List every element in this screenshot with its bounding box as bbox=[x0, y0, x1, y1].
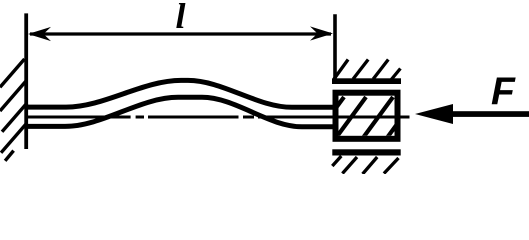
bottom wall hatching bbox=[332, 156, 398, 174]
svg-text:F: F bbox=[491, 71, 516, 114]
top wall hatching bbox=[334, 60, 400, 80]
right dimension arrowhead bbox=[310, 26, 333, 40]
beam bottom edge (buckled) bbox=[26, 97, 336, 127]
svg-text:l: l bbox=[175, 0, 185, 36]
block interior hatching bbox=[314, 97, 417, 138]
dimension line l bbox=[30, 32, 331, 35]
left dimension arrowhead bbox=[28, 27, 51, 41]
left wall hatching bbox=[0, 59, 27, 161]
force arrow F bbox=[415, 104, 453, 124]
beam top edge (buckled) bbox=[26, 80, 336, 107]
left wall / dimension extension line bbox=[24, 13, 28, 149]
right dimension extension line bbox=[333, 14, 337, 80]
bottom wall bar bbox=[332, 149, 400, 155]
centerline (dash-dot axis) bbox=[27, 116, 410, 119]
sliding block bbox=[336, 93, 398, 139]
top wall line bbox=[332, 78, 401, 84]
